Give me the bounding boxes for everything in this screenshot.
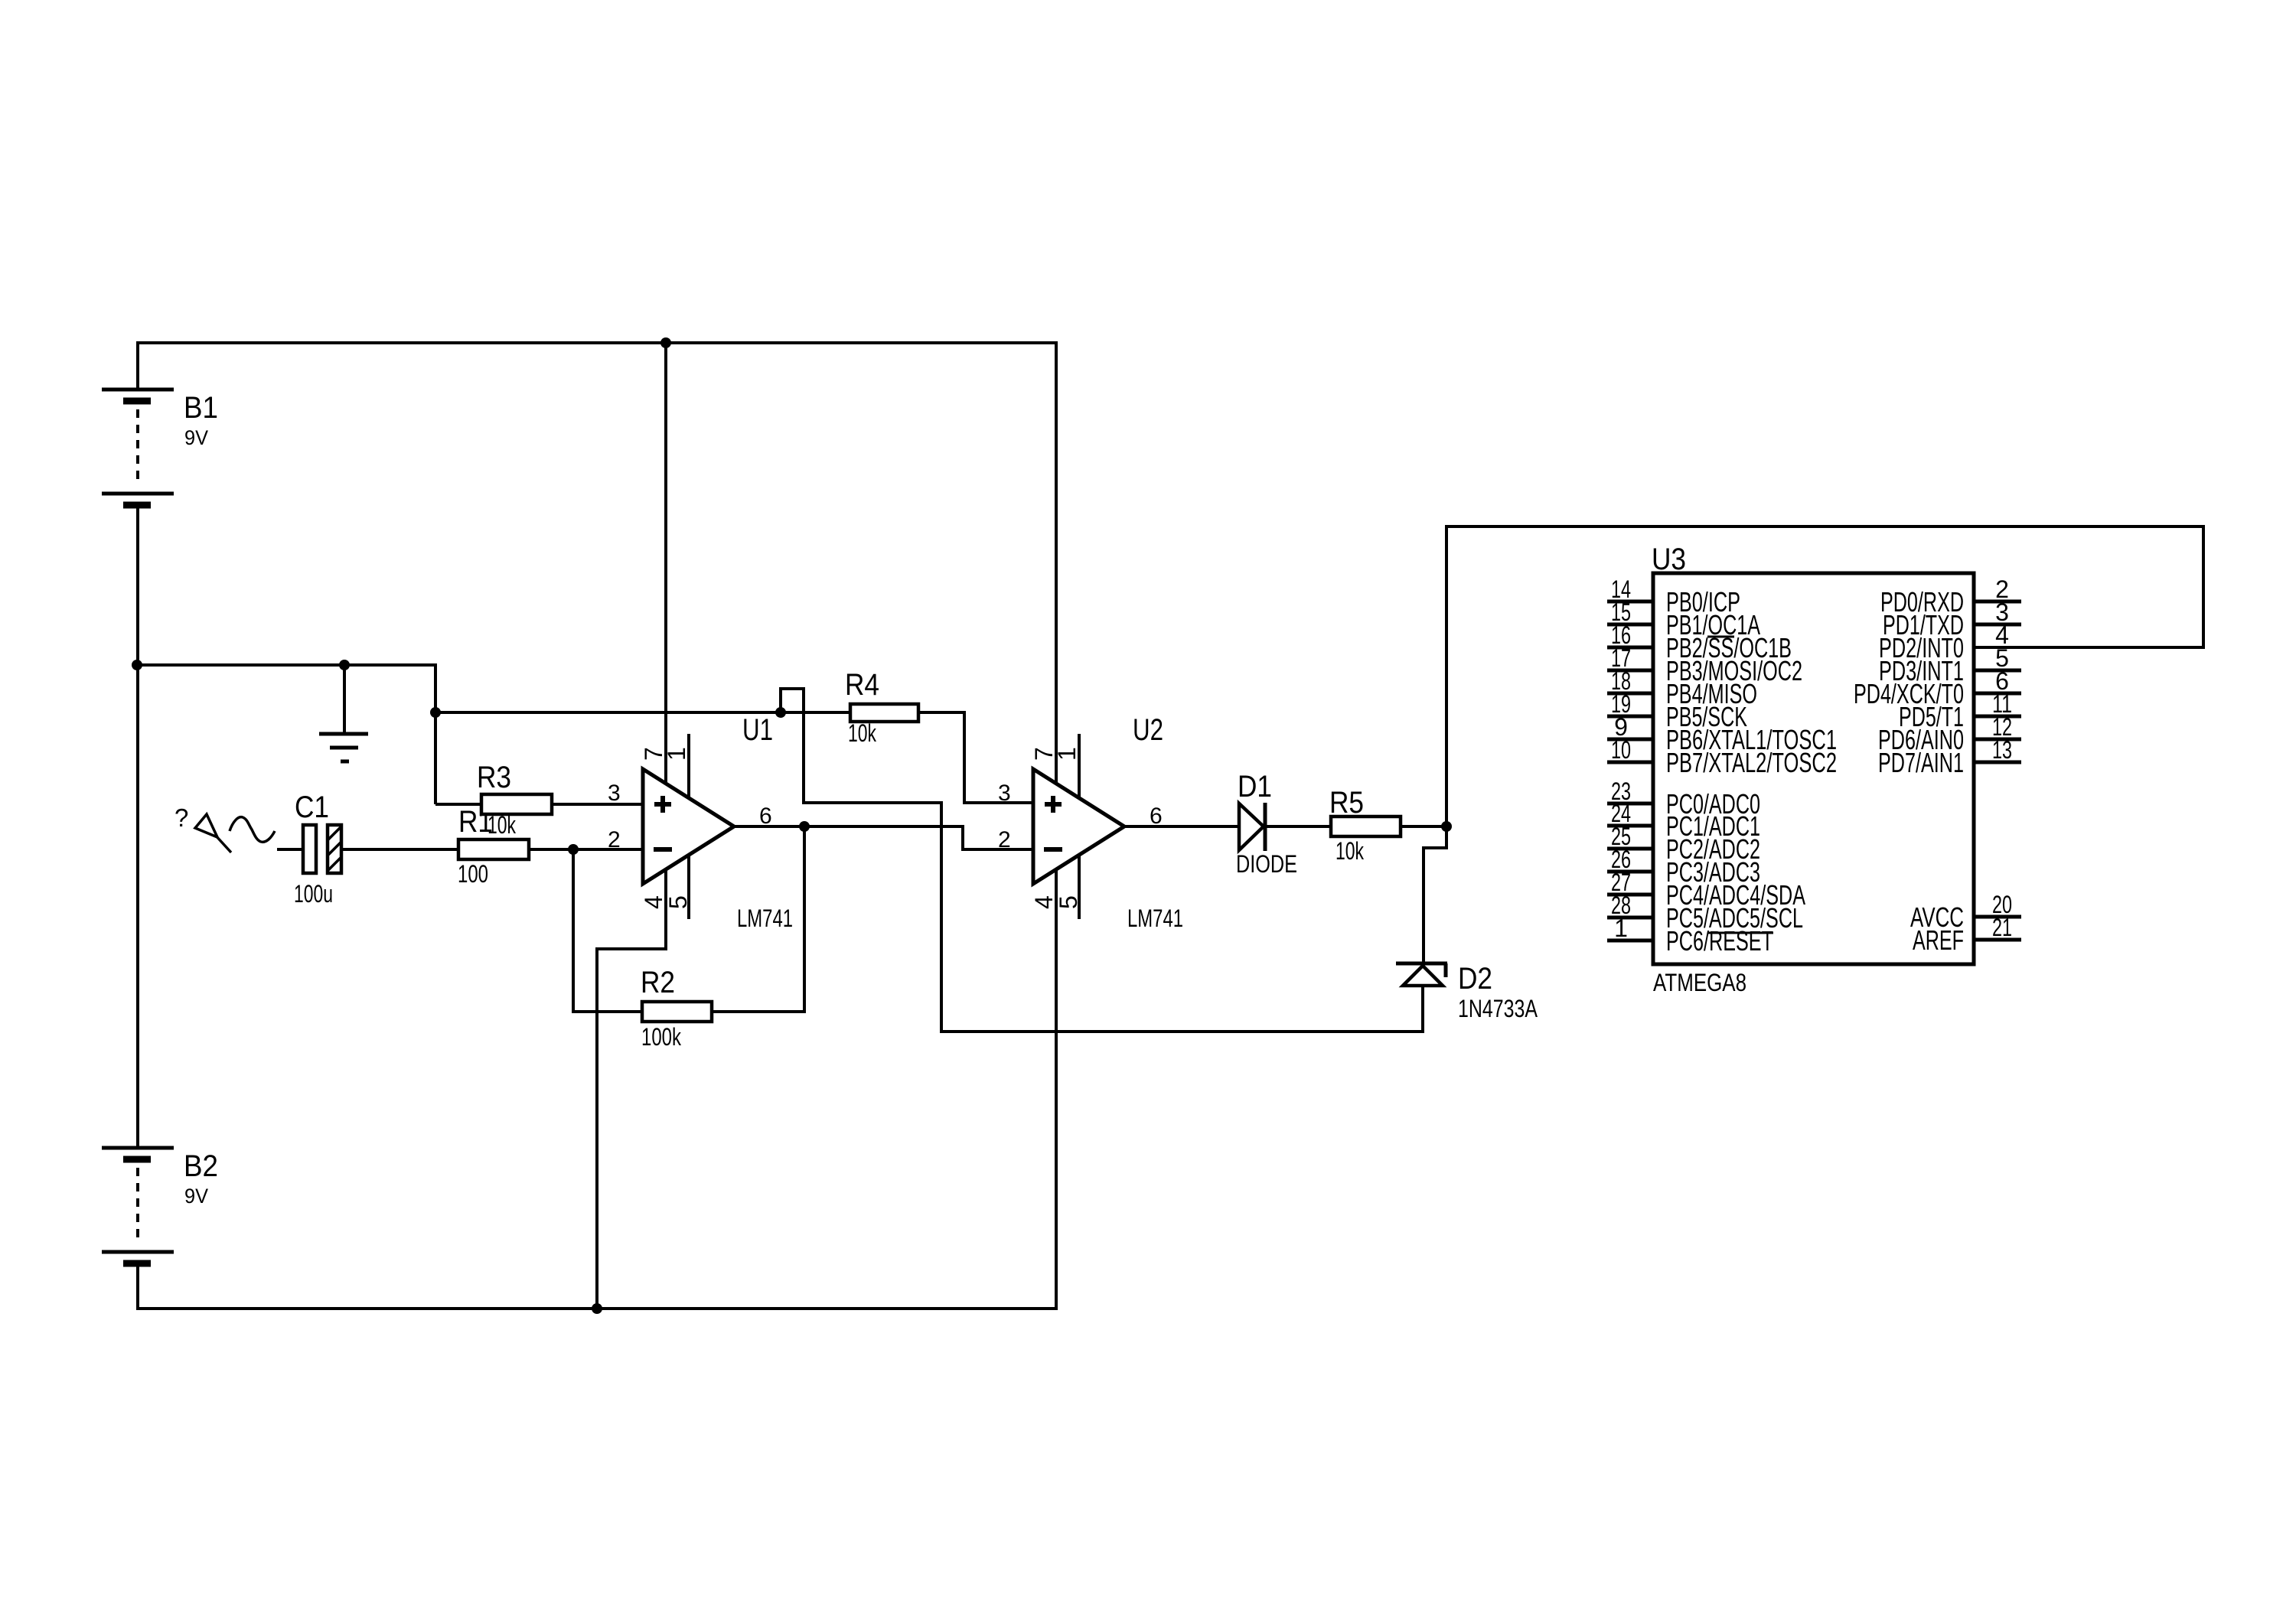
wire top rail V+ — [136, 341, 1056, 344]
svg-text:R5: R5 — [1329, 786, 1364, 820]
op-amp U1 LM741 — [608, 713, 793, 932]
battery B2 9V — [102, 665, 218, 1310]
svg-text:4: 4 — [1030, 895, 1058, 909]
svg-text:100u: 100u — [294, 880, 333, 908]
svg-text:DIODE: DIODE — [1236, 850, 1297, 878]
wire U1 pin4 to bottom rail — [597, 869, 666, 1310]
svg-text:10k: 10k — [848, 719, 877, 747]
junction dot bottom rail / U1 pin4 — [592, 1303, 602, 1314]
resistor R4 10k — [845, 668, 1034, 803]
svg-text:5: 5 — [1055, 895, 1082, 909]
svg-text:C1: C1 — [295, 790, 329, 824]
junction dot R4 left node — [775, 707, 786, 718]
svg-text:D2: D2 — [1458, 962, 1492, 996]
svg-text:5: 5 — [664, 895, 692, 909]
wire bottom rail V- — [136, 1307, 1056, 1310]
junction dot R5/D2/ADC node — [1441, 821, 1452, 832]
svg-text:PB7/XTAL2/TOSC2: PB7/XTAL2/TOSC2 — [1666, 747, 1837, 778]
svg-text:1: 1 — [1614, 914, 1628, 942]
svg-text:100: 100 — [458, 860, 488, 888]
wire bump from R4-left node over to U2 net and D2 anode — [781, 689, 1423, 1032]
junction dot node GND/R4 branch — [430, 707, 441, 718]
wire C1 to R1 — [341, 848, 460, 851]
wire mid rail to ground node — [138, 663, 435, 667]
zener diode D2 1N4733A — [1396, 962, 1538, 1033]
junction dot top rail / U1 pin7 — [660, 337, 671, 348]
wire R3 to U1 pin3 — [552, 803, 644, 806]
wire U1 output pin6 to U2 pin2 — [734, 826, 1034, 849]
svg-text:R2: R2 — [641, 966, 675, 999]
wire node to U3 pin4 INT0 — [1446, 526, 2203, 826]
svg-text:R4: R4 — [845, 668, 879, 702]
microcontroller U3 ATMEGA8 — [1607, 543, 2021, 996]
svg-text:U3: U3 — [1652, 543, 1686, 576]
svg-text:U1: U1 — [742, 713, 773, 747]
svg-text:1N4733A: 1N4733A — [1458, 995, 1538, 1022]
resistor R3 10k — [435, 761, 552, 839]
junction dot ground branch — [339, 660, 350, 670]
svg-text:B2: B2 — [184, 1149, 218, 1183]
wire U2 pin4 to bottom rail — [1055, 869, 1058, 1310]
svg-text:PC6/RESET: PC6/RESET — [1666, 925, 1773, 957]
svg-text:?: ? — [174, 803, 188, 832]
svg-text:13: 13 — [1992, 736, 2012, 764]
resistor R1 100 — [458, 805, 529, 888]
svg-text:9V: 9V — [184, 426, 208, 449]
svg-text:100k: 100k — [641, 1023, 682, 1051]
input transducer symbol (mic) — [174, 803, 275, 852]
svg-text:3: 3 — [608, 781, 621, 806]
junction dot U1 output — [799, 821, 810, 832]
svg-text:10: 10 — [1611, 736, 1631, 764]
svg-text:9V: 9V — [184, 1185, 208, 1208]
svg-text:D1: D1 — [1238, 770, 1272, 803]
op-amp U2 LM741 — [998, 713, 1183, 932]
svg-text:PD7/AIN1: PD7/AIN1 — [1878, 747, 1964, 778]
resistor R2 100k — [573, 826, 804, 1051]
wire U1 pin7 to top rail — [664, 343, 667, 784]
svg-text:2: 2 — [608, 827, 621, 852]
capacitor C1 100u — [294, 790, 341, 908]
svg-text:B1: B1 — [184, 391, 218, 425]
svg-text:4: 4 — [640, 895, 667, 909]
wire mic to C1 — [277, 848, 303, 851]
wire ground node to R4 left — [435, 711, 852, 714]
svg-text:LM741: LM741 — [737, 905, 793, 932]
wire node to D2 cathode — [1424, 826, 1446, 964]
junction dot U1 pin2 / R2 node — [568, 844, 579, 855]
svg-text:ATMEGA8: ATMEGA8 — [1653, 969, 1746, 996]
svg-text:10k: 10k — [1336, 837, 1365, 865]
ground symbol — [319, 665, 368, 761]
svg-text:LM741: LM741 — [1127, 905, 1183, 932]
svg-text:3: 3 — [998, 781, 1011, 806]
svg-text:21: 21 — [1992, 914, 2012, 941]
svg-text:2: 2 — [998, 827, 1011, 852]
svg-text:AREF: AREF — [1913, 924, 1964, 956]
junction dot mid rail — [132, 660, 142, 670]
battery B1 9V — [102, 341, 218, 665]
diode D1 DIODE — [1124, 770, 1332, 878]
svg-text:U2: U2 — [1133, 713, 1163, 747]
svg-text:R3: R3 — [477, 761, 511, 794]
wire ground node down to R3 — [434, 663, 437, 804]
resistor R5 10k — [1329, 786, 1448, 865]
wire R1 to U1 pin2 — [529, 848, 644, 851]
svg-text:10k: 10k — [488, 811, 517, 839]
wire U2 pin7 to top rail — [1055, 341, 1058, 784]
